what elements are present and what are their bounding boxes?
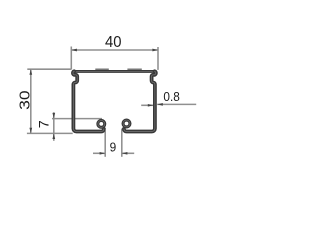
dimension 30: top arrowhead <box>29 69 32 75</box>
rail profile: left side (hem, step, wall, bottom lip) <box>73 71 104 131</box>
dimension 7: extension line top (to curl) <box>52 118 102 120</box>
dimension 9: left arrowhead (points right) <box>100 152 106 155</box>
dimension 9: extension line right <box>121 129 123 157</box>
dimension 30: extension line bottom (shared with dim 7) <box>27 132 73 134</box>
right bottom curl (rolled lip) <box>123 120 130 127</box>
dimension 9: dimension line right tail <box>122 152 134 154</box>
dimension 40: extension line left <box>70 47 72 70</box>
dimension 0.8: right leader line <box>157 103 196 105</box>
dimension 9: dimension line left tail <box>93 152 105 154</box>
dimension 40: left arrowhead <box>71 49 77 52</box>
dimension 9: extension line left <box>104 131 106 157</box>
dimension 30: bottom arrowhead <box>29 128 32 134</box>
svg-text:40: 40 <box>105 34 122 51</box>
dimension 0.8: left leader with arrow pointing right at wall <box>141 104 153 106</box>
svg-text:30: 30 <box>17 90 33 110</box>
rail profile: top web surface <box>74 70 154 73</box>
dimension 7: dimension line <box>53 112 55 141</box>
dimension 30: extension line top <box>27 68 71 70</box>
dimension 40: right arrowhead <box>152 49 158 52</box>
svg-text:9: 9 <box>110 140 117 155</box>
top surface rib dash left <box>95 68 109 70</box>
dimension 40: extension line right <box>157 47 159 70</box>
dimension 0.8: right arrowhead pointing left at wall <box>157 103 163 106</box>
svg-text:0.8: 0.8 <box>163 89 179 104</box>
left bottom curl (rolled lip) <box>98 120 105 127</box>
rail profile: right side (hem, step, wall, bottom lip) <box>124 71 156 131</box>
dimension 30: dimension line <box>30 69 32 133</box>
top surface rib dash right <box>127 68 141 70</box>
dimension 40: dimension line <box>71 49 158 51</box>
dimension 7: lower arrowhead (outside, points up) <box>52 133 55 139</box>
dimension 7: upper arrowhead (outside, points down) <box>52 113 55 119</box>
svg-text:7: 7 <box>37 120 52 128</box>
dimension 9: right arrowhead (points left) <box>122 152 128 155</box>
